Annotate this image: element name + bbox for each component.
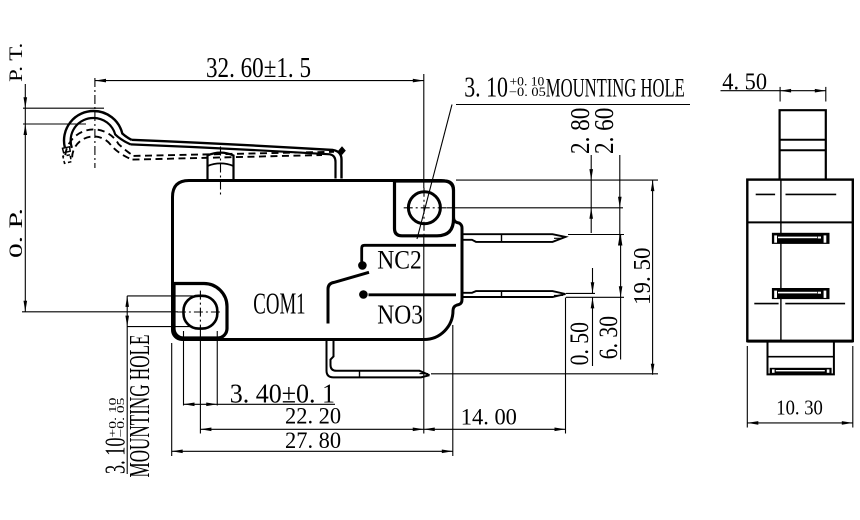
svg-text:4. 50: 4. 50 — [722, 68, 767, 95]
svg-text:14. 00: 14. 00 — [461, 404, 517, 429]
svg-text:NC2: NC2 — [377, 246, 422, 275]
svg-text:32. 60±1. 5: 32. 60±1. 5 — [206, 53, 311, 84]
svg-text:22. 20: 22. 20 — [285, 403, 341, 428]
svg-text:MOUNTING HOLE: MOUNTING HOLE — [125, 335, 156, 478]
svg-text:0. 50: 0. 50 — [565, 322, 594, 365]
svg-text:3. 10: 3. 10 — [464, 73, 508, 104]
svg-text:MOUNTING HOLE: MOUNTING HOLE — [546, 74, 685, 103]
svg-text:P. T.: P. T. — [6, 43, 27, 82]
svg-text:COM1: COM1 — [253, 286, 305, 321]
svg-text:2. 60: 2. 60 — [589, 108, 619, 154]
svg-text:0. P.: 0. P. — [6, 208, 27, 258]
svg-text:−0. 05: −0. 05 — [509, 85, 546, 99]
svg-text:19. 50: 19. 50 — [630, 248, 656, 306]
svg-text:27. 80: 27. 80 — [285, 428, 341, 453]
svg-text:10. 30: 10. 30 — [776, 395, 823, 419]
svg-text:NO3: NO3 — [377, 300, 423, 330]
svg-text:6. 30: 6. 30 — [594, 316, 623, 359]
